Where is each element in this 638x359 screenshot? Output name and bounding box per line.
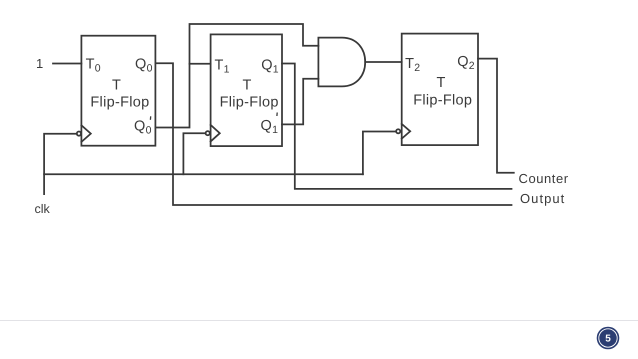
svg-text:Q0: Q0 — [134, 118, 152, 136]
svg-text:Q1: Q1 — [261, 118, 279, 136]
svg-text:T1: T1 — [215, 57, 230, 75]
svg-text:1: 1 — [36, 56, 43, 71]
svg-text:Q1: Q1 — [261, 57, 279, 75]
svg-text:T0: T0 — [86, 56, 101, 74]
svg-text:5: 5 — [605, 334, 611, 345]
svg-text:Counter: Counter — [519, 171, 569, 186]
svg-text:Flip-Flop: Flip-Flop — [413, 92, 472, 108]
svg-text:T: T — [112, 78, 121, 94]
svg-text:Q0: Q0 — [135, 56, 153, 74]
svg-text:T: T — [437, 75, 446, 91]
svg-text:Q2: Q2 — [457, 54, 475, 72]
svg-text:Flip-Flop: Flip-Flop — [220, 94, 279, 110]
svg-text:T2: T2 — [405, 56, 420, 74]
svg-text:clk: clk — [35, 202, 51, 216]
svg-text:Flip-Flop: Flip-Flop — [90, 94, 149, 110]
svg-text:T: T — [243, 77, 252, 93]
svg-text:Output: Output — [520, 191, 565, 206]
